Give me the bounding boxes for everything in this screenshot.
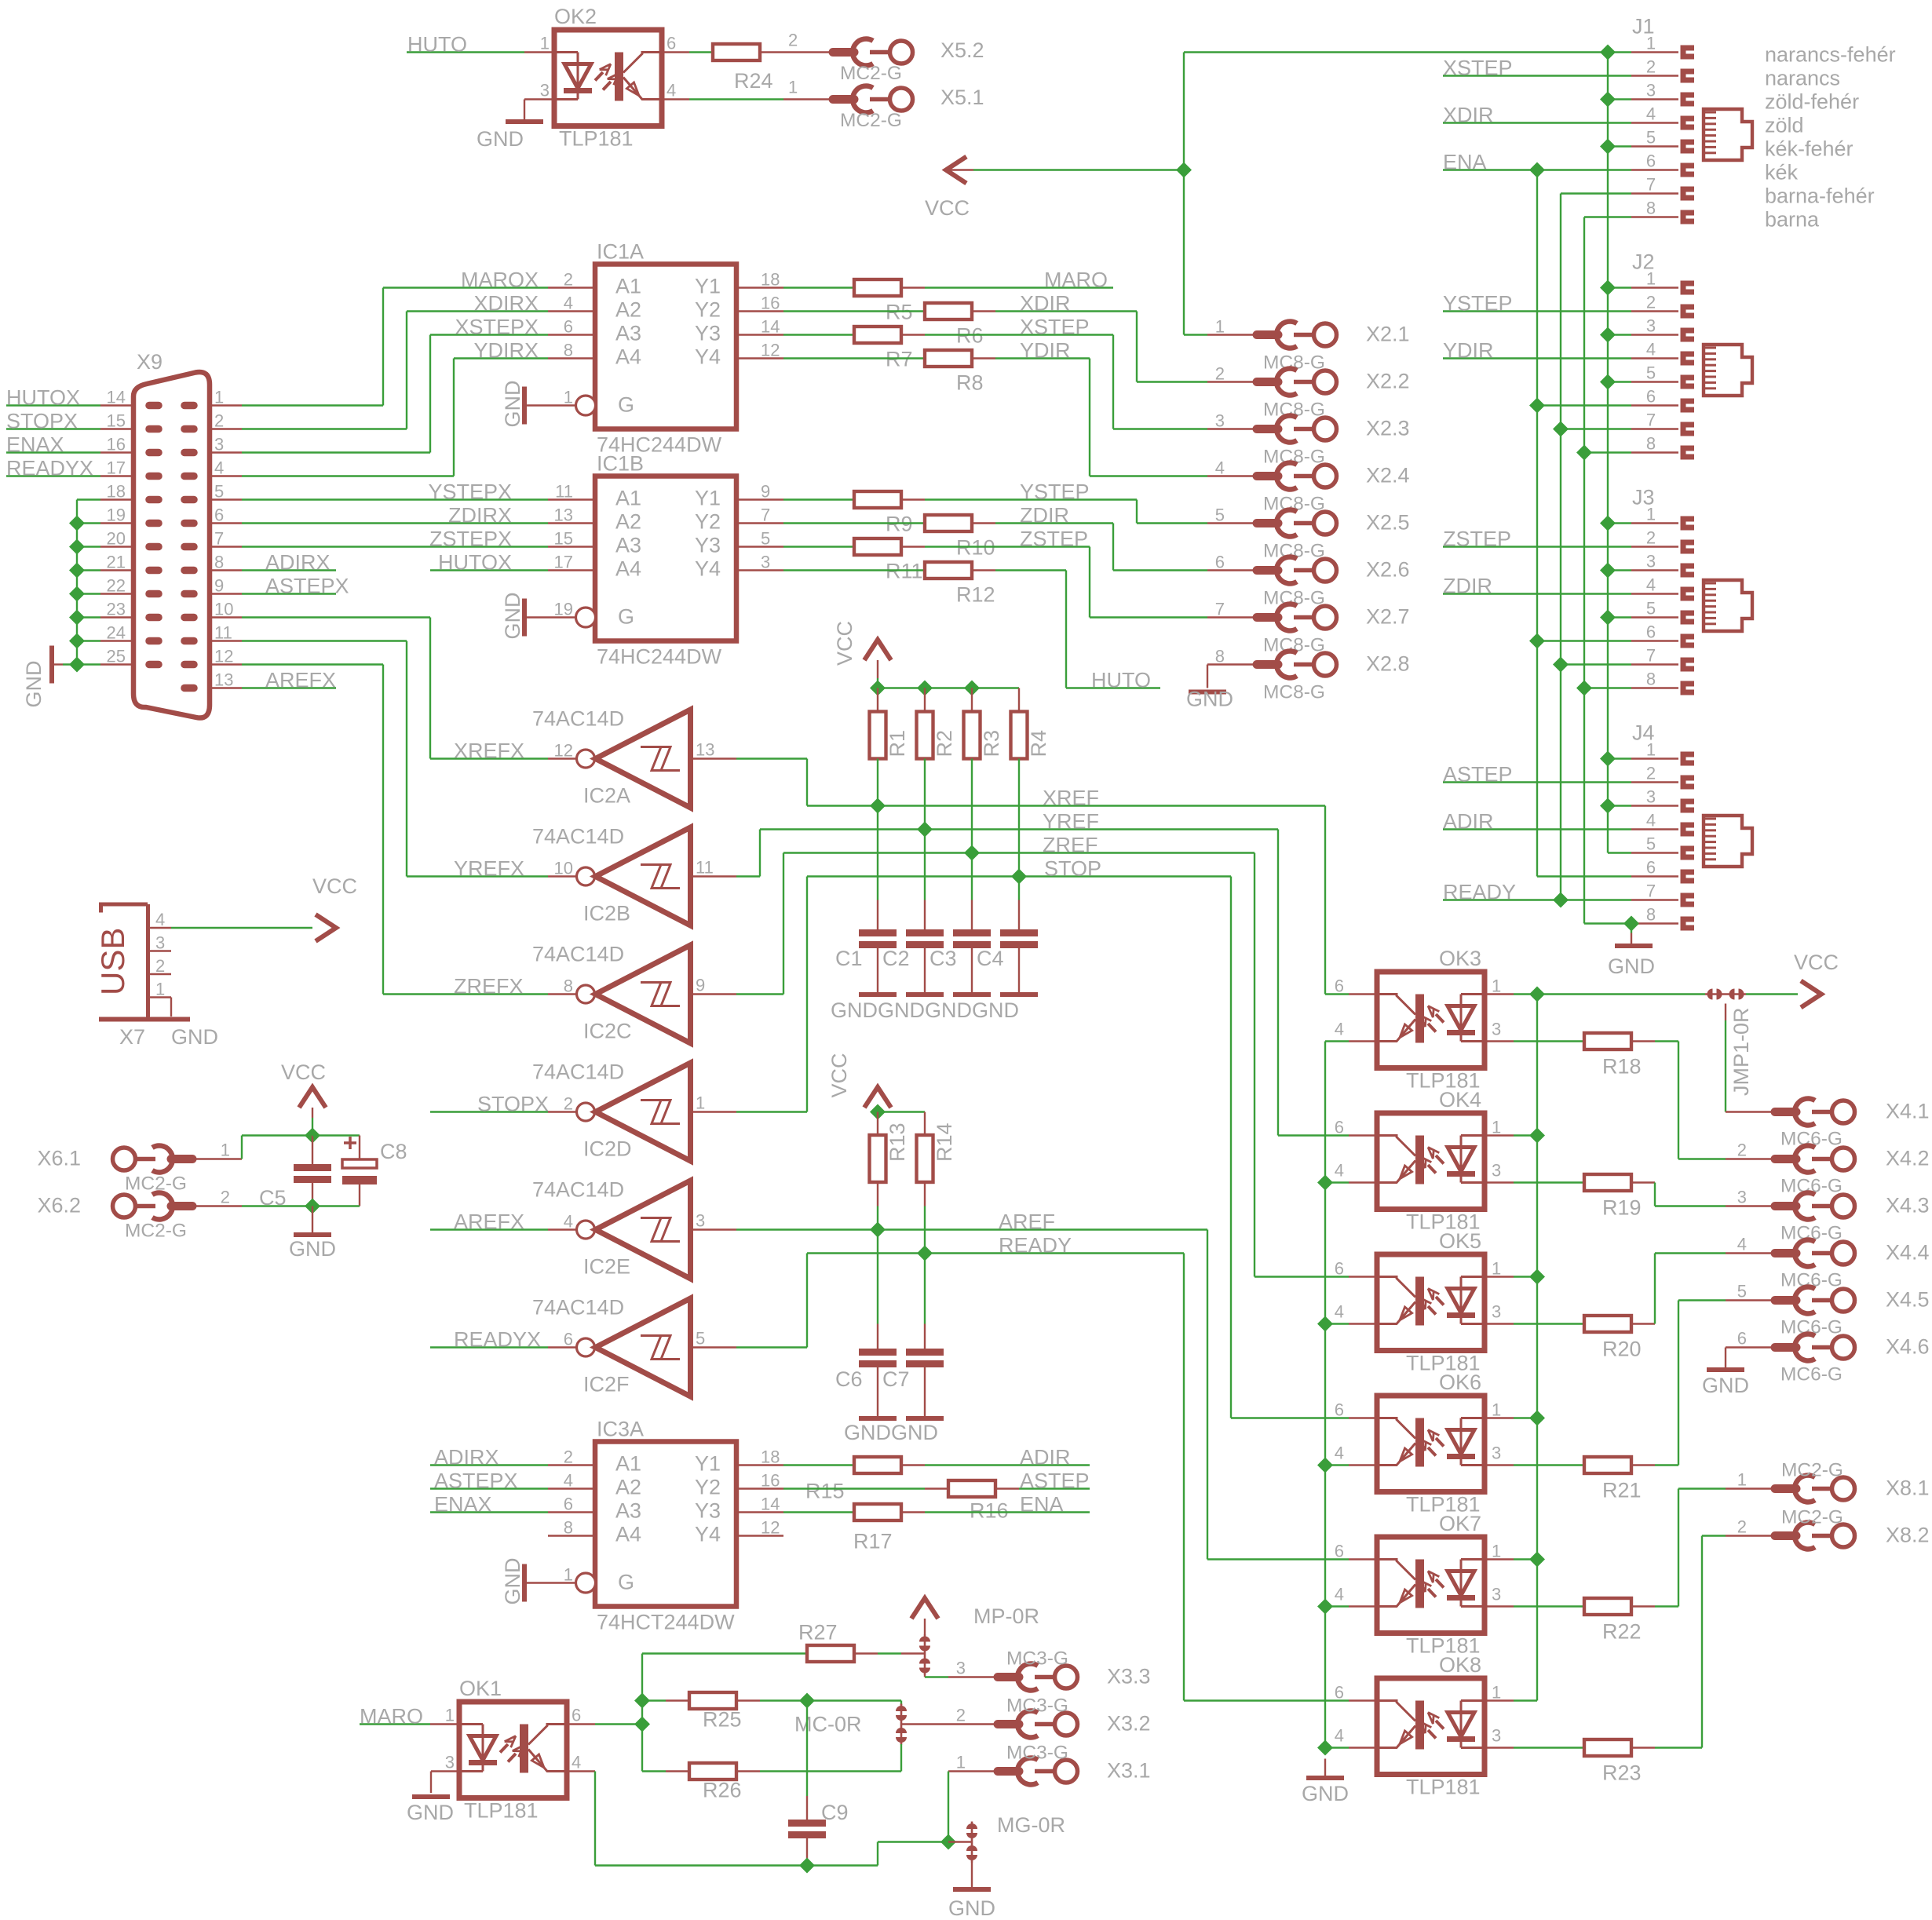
svg-text:X4.6: X4.6 bbox=[1886, 1335, 1930, 1359]
svg-text:2: 2 bbox=[214, 411, 224, 431]
svg-text:1: 1 bbox=[564, 1565, 573, 1585]
svg-text:X3.2: X3.2 bbox=[1107, 1712, 1151, 1736]
svg-text:3: 3 bbox=[214, 435, 224, 454]
svg-text:1: 1 bbox=[1646, 34, 1656, 53]
svg-text:5: 5 bbox=[214, 482, 224, 502]
svg-text:IC1A: IC1A bbox=[597, 240, 644, 264]
svg-text:READYX: READYX bbox=[454, 1328, 541, 1352]
svg-text:GND: GND bbox=[501, 593, 524, 640]
svg-text:1: 1 bbox=[1492, 1400, 1501, 1420]
svg-text:GND: GND bbox=[501, 381, 524, 428]
svg-text:OK5: OK5 bbox=[1439, 1229, 1481, 1253]
svg-text:2: 2 bbox=[1646, 764, 1656, 783]
svg-text:GND: GND bbox=[1186, 688, 1233, 711]
svg-text:4: 4 bbox=[572, 1753, 581, 1772]
svg-text:Y2: Y2 bbox=[695, 1476, 721, 1499]
svg-text:A4: A4 bbox=[615, 1523, 641, 1546]
svg-text:17: 17 bbox=[554, 553, 573, 572]
svg-text:3: 3 bbox=[155, 933, 165, 953]
svg-text:IC2B: IC2B bbox=[583, 902, 630, 925]
svg-text:R21: R21 bbox=[1602, 1479, 1642, 1502]
svg-text:6: 6 bbox=[1646, 858, 1656, 878]
svg-text:GND: GND bbox=[1702, 1374, 1749, 1397]
svg-text:11: 11 bbox=[696, 858, 714, 878]
svg-text:3: 3 bbox=[1646, 81, 1656, 100]
svg-text:2: 2 bbox=[1737, 1141, 1747, 1160]
svg-text:IC2D: IC2D bbox=[583, 1137, 632, 1161]
svg-text:G: G bbox=[618, 1571, 634, 1594]
svg-text:21: 21 bbox=[107, 553, 126, 572]
svg-text:1: 1 bbox=[1737, 1470, 1747, 1490]
svg-text:YSTEPX: YSTEPX bbox=[428, 480, 512, 504]
svg-text:74AC14D: 74AC14D bbox=[532, 825, 624, 849]
svg-text:X7: X7 bbox=[119, 1025, 145, 1049]
svg-text:HUTOX: HUTOX bbox=[438, 551, 512, 575]
svg-text:6: 6 bbox=[1335, 1542, 1344, 1561]
svg-text:8: 8 bbox=[1646, 199, 1656, 218]
svg-text:8: 8 bbox=[1646, 905, 1656, 925]
svg-text:19: 19 bbox=[107, 506, 126, 525]
svg-text:MC-0R: MC-0R bbox=[794, 1713, 862, 1736]
svg-text:R13: R13 bbox=[886, 1122, 909, 1162]
svg-text:74AC14D: 74AC14D bbox=[532, 1178, 624, 1202]
svg-text:4: 4 bbox=[214, 458, 224, 478]
svg-text:4: 4 bbox=[1646, 811, 1656, 830]
svg-text:OK1: OK1 bbox=[459, 1677, 502, 1700]
svg-text:25: 25 bbox=[107, 647, 126, 666]
svg-text:A2: A2 bbox=[615, 1476, 641, 1499]
svg-text:IC1B: IC1B bbox=[597, 452, 644, 476]
svg-text:R8: R8 bbox=[956, 371, 984, 395]
svg-text:MC8-G: MC8-G bbox=[1263, 682, 1325, 703]
svg-text:A2: A2 bbox=[615, 510, 641, 534]
svg-text:8: 8 bbox=[564, 976, 573, 996]
svg-text:ZSTEPX: ZSTEPX bbox=[429, 527, 512, 551]
svg-text:4: 4 bbox=[1646, 340, 1656, 360]
svg-text:MC2-G: MC2-G bbox=[840, 63, 902, 84]
svg-text:GND: GND bbox=[925, 998, 972, 1022]
svg-text:7: 7 bbox=[1646, 175, 1656, 195]
svg-text:VCC: VCC bbox=[827, 1053, 851, 1097]
svg-text:X4.4: X4.4 bbox=[1886, 1241, 1930, 1265]
svg-text:6: 6 bbox=[564, 317, 573, 337]
svg-text:Y1: Y1 bbox=[695, 487, 721, 510]
svg-text:X2.3: X2.3 bbox=[1366, 417, 1410, 440]
svg-text:3: 3 bbox=[1492, 1585, 1501, 1604]
svg-text:3: 3 bbox=[1492, 1444, 1501, 1463]
svg-text:13: 13 bbox=[696, 740, 714, 760]
svg-text:USB: USB bbox=[94, 928, 131, 995]
svg-text:VCC: VCC bbox=[312, 874, 357, 898]
svg-text:1: 1 bbox=[540, 34, 550, 53]
svg-text:2: 2 bbox=[155, 956, 165, 976]
svg-text:R24: R24 bbox=[734, 69, 773, 93]
svg-text:4: 4 bbox=[564, 1471, 573, 1491]
svg-text:R12: R12 bbox=[956, 583, 995, 607]
svg-text:R20: R20 bbox=[1602, 1338, 1642, 1361]
svg-text:7: 7 bbox=[1646, 411, 1656, 430]
svg-text:1: 1 bbox=[445, 1706, 455, 1725]
svg-text:1: 1 bbox=[1492, 976, 1501, 996]
svg-text:ADIRX: ADIRX bbox=[265, 551, 331, 575]
svg-text:ADIR: ADIR bbox=[1443, 810, 1494, 834]
svg-text:X8.1: X8.1 bbox=[1886, 1477, 1930, 1500]
svg-text:narancs-fehér: narancs-fehér bbox=[1765, 43, 1896, 67]
svg-text:MAROX: MAROX bbox=[461, 268, 539, 292]
svg-text:STOP: STOP bbox=[1044, 857, 1101, 881]
svg-text:7: 7 bbox=[761, 506, 770, 525]
svg-text:14: 14 bbox=[107, 388, 126, 407]
svg-text:ENAX: ENAX bbox=[6, 433, 64, 457]
svg-text:IC2A: IC2A bbox=[583, 784, 630, 808]
svg-text:R19: R19 bbox=[1602, 1196, 1642, 1220]
svg-text:X9: X9 bbox=[137, 350, 163, 374]
svg-text:15: 15 bbox=[107, 411, 126, 431]
svg-text:YDIR: YDIR bbox=[1443, 339, 1494, 363]
svg-text:zöld-fehér: zöld-fehér bbox=[1765, 90, 1859, 114]
svg-text:MG-0R: MG-0R bbox=[997, 1813, 1065, 1837]
svg-text:18: 18 bbox=[107, 482, 126, 502]
svg-text:5: 5 bbox=[1646, 128, 1656, 148]
svg-text:12: 12 bbox=[761, 1518, 780, 1538]
svg-text:1: 1 bbox=[1492, 1259, 1501, 1279]
svg-text:4: 4 bbox=[564, 294, 573, 313]
svg-text:5: 5 bbox=[1646, 834, 1656, 854]
svg-text:MC3-G: MC3-G bbox=[1006, 1648, 1068, 1670]
svg-text:4: 4 bbox=[1335, 1020, 1344, 1039]
svg-text:GND: GND bbox=[844, 1421, 891, 1444]
svg-text:1: 1 bbox=[1492, 1542, 1501, 1561]
svg-text:6: 6 bbox=[1335, 1259, 1344, 1279]
svg-text:A4: A4 bbox=[615, 557, 641, 581]
svg-text:6: 6 bbox=[1737, 1329, 1747, 1349]
svg-text:ZREF: ZREF bbox=[1043, 834, 1098, 857]
svg-text:C2: C2 bbox=[882, 947, 910, 970]
svg-text:7: 7 bbox=[1646, 646, 1656, 666]
svg-text:AREFX: AREFX bbox=[265, 669, 336, 692]
svg-text:1: 1 bbox=[221, 1141, 230, 1160]
svg-text:READYX: READYX bbox=[6, 457, 93, 480]
svg-text:ZREFX: ZREFX bbox=[454, 975, 524, 998]
svg-text:MC2-G: MC2-G bbox=[1781, 1460, 1843, 1481]
svg-text:7: 7 bbox=[214, 529, 224, 549]
svg-text:kék: kék bbox=[1765, 161, 1799, 184]
svg-text:GND: GND bbox=[878, 998, 925, 1022]
svg-text:X2.7: X2.7 bbox=[1366, 605, 1410, 629]
svg-text:MC2-G: MC2-G bbox=[1781, 1507, 1843, 1528]
svg-text:C5: C5 bbox=[259, 1186, 287, 1210]
svg-text:6: 6 bbox=[572, 1706, 581, 1725]
svg-text:19: 19 bbox=[554, 600, 573, 619]
svg-text:A3: A3 bbox=[615, 1499, 641, 1523]
svg-text:X2.6: X2.6 bbox=[1366, 558, 1410, 582]
svg-text:1: 1 bbox=[1646, 740, 1656, 760]
svg-text:3: 3 bbox=[1646, 552, 1656, 571]
svg-text:3: 3 bbox=[1737, 1188, 1747, 1207]
svg-text:ADIR: ADIR bbox=[1020, 1446, 1071, 1469]
svg-text:XREFX: XREFX bbox=[454, 739, 524, 763]
svg-text:14: 14 bbox=[761, 1495, 780, 1514]
svg-text:zöld: zöld bbox=[1765, 114, 1804, 137]
svg-text:1: 1 bbox=[1646, 269, 1656, 289]
svg-text:6: 6 bbox=[1335, 1118, 1344, 1137]
svg-text:XREF: XREF bbox=[1043, 787, 1099, 810]
svg-text:HUTO: HUTO bbox=[1091, 669, 1151, 692]
svg-text:XDIR: XDIR bbox=[1020, 292, 1071, 316]
svg-text:20: 20 bbox=[107, 529, 126, 549]
svg-text:R16: R16 bbox=[970, 1499, 1009, 1523]
svg-text:6: 6 bbox=[667, 34, 676, 53]
svg-text:A1: A1 bbox=[615, 487, 641, 510]
svg-text:R23: R23 bbox=[1602, 1761, 1642, 1785]
svg-text:C4: C4 bbox=[977, 947, 1004, 970]
svg-text:OK7: OK7 bbox=[1439, 1512, 1481, 1535]
svg-text:X4.1: X4.1 bbox=[1886, 1100, 1930, 1123]
svg-text:STOPX: STOPX bbox=[6, 410, 78, 433]
svg-text:15: 15 bbox=[554, 529, 573, 549]
svg-text:READY: READY bbox=[999, 1234, 1072, 1257]
svg-text:Y3: Y3 bbox=[695, 322, 721, 345]
svg-text:MC6-G: MC6-G bbox=[1780, 1364, 1843, 1385]
svg-text:6: 6 bbox=[1646, 151, 1656, 171]
svg-text:Y4: Y4 bbox=[695, 345, 721, 369]
svg-text:3: 3 bbox=[445, 1753, 455, 1772]
svg-text:IC2C: IC2C bbox=[583, 1020, 632, 1043]
svg-text:YSTEP: YSTEP bbox=[1020, 480, 1090, 504]
svg-text:C3: C3 bbox=[929, 947, 957, 970]
svg-text:4: 4 bbox=[1646, 575, 1656, 595]
svg-text:74AC14D: 74AC14D bbox=[532, 707, 624, 731]
svg-text:2: 2 bbox=[564, 1094, 573, 1114]
svg-text:8: 8 bbox=[1646, 670, 1656, 689]
svg-text:1: 1 bbox=[1215, 317, 1225, 337]
svg-text:MC3-G: MC3-G bbox=[1006, 1743, 1068, 1764]
svg-text:ENAX: ENAX bbox=[434, 1493, 492, 1517]
svg-text:GND: GND bbox=[289, 1237, 336, 1261]
svg-text:R3: R3 bbox=[980, 730, 1003, 757]
svg-text:2: 2 bbox=[1646, 293, 1656, 312]
svg-text:R22: R22 bbox=[1602, 1620, 1642, 1644]
svg-text:3: 3 bbox=[1492, 1302, 1501, 1322]
svg-text:X5.1: X5.1 bbox=[940, 86, 984, 109]
svg-text:GND: GND bbox=[407, 1801, 454, 1824]
svg-text:5: 5 bbox=[1646, 599, 1656, 619]
svg-text:Y1: Y1 bbox=[695, 1452, 721, 1476]
svg-text:G: G bbox=[618, 605, 634, 629]
svg-text:X2.8: X2.8 bbox=[1366, 652, 1410, 676]
svg-text:ZDIRX: ZDIRX bbox=[448, 504, 512, 527]
svg-text:Y3: Y3 bbox=[695, 1499, 721, 1523]
svg-text:8: 8 bbox=[1215, 647, 1225, 666]
svg-text:X6.2: X6.2 bbox=[37, 1194, 81, 1217]
svg-text:6: 6 bbox=[214, 506, 224, 525]
svg-text:VCC: VCC bbox=[1794, 951, 1839, 974]
svg-text:GND: GND bbox=[831, 998, 878, 1022]
svg-text:GND: GND bbox=[477, 127, 524, 151]
svg-text:A3: A3 bbox=[615, 534, 641, 557]
svg-text:YDIRX: YDIRX bbox=[473, 339, 539, 363]
svg-text:4: 4 bbox=[1335, 1585, 1344, 1604]
svg-text:A1: A1 bbox=[615, 275, 641, 298]
svg-text:17: 17 bbox=[107, 458, 126, 478]
svg-text:ZSTEP: ZSTEP bbox=[1443, 527, 1511, 551]
svg-text:narancs: narancs bbox=[1765, 67, 1840, 90]
svg-text:7: 7 bbox=[1215, 600, 1225, 619]
svg-text:18: 18 bbox=[761, 270, 780, 290]
svg-text:C8: C8 bbox=[380, 1140, 407, 1163]
svg-text:kék-fehér: kék-fehér bbox=[1765, 137, 1853, 161]
svg-text:STOPX: STOPX bbox=[477, 1093, 549, 1116]
svg-text:MC3-G: MC3-G bbox=[1006, 1696, 1068, 1717]
svg-text:6: 6 bbox=[1646, 622, 1656, 642]
svg-text:1: 1 bbox=[696, 1093, 705, 1113]
svg-text:5: 5 bbox=[1646, 363, 1656, 383]
svg-text:MP-0R: MP-0R bbox=[973, 1604, 1039, 1628]
svg-text:X6.1: X6.1 bbox=[37, 1147, 81, 1170]
svg-text:7: 7 bbox=[1646, 882, 1656, 901]
svg-text:GND: GND bbox=[972, 998, 1019, 1022]
svg-text:ZSTEP: ZSTEP bbox=[1020, 527, 1088, 551]
svg-text:X4.3: X4.3 bbox=[1886, 1194, 1930, 1217]
svg-text:8: 8 bbox=[214, 553, 224, 572]
svg-text:ZDIR: ZDIR bbox=[1020, 504, 1069, 527]
svg-text:2: 2 bbox=[1215, 364, 1225, 384]
svg-text:X2.5: X2.5 bbox=[1366, 511, 1410, 535]
svg-text:Y4: Y4 bbox=[695, 557, 721, 581]
svg-text:1: 1 bbox=[1492, 1118, 1501, 1137]
svg-text:X2.1: X2.1 bbox=[1366, 323, 1410, 346]
svg-text:9: 9 bbox=[761, 482, 770, 502]
svg-text:YREFX: YREFX bbox=[454, 857, 524, 881]
svg-text:13: 13 bbox=[214, 670, 233, 690]
svg-text:VCC: VCC bbox=[925, 196, 970, 220]
svg-text:74AC14D: 74AC14D bbox=[532, 1060, 624, 1084]
svg-text:ASTEP: ASTEP bbox=[1443, 763, 1513, 787]
svg-text:4: 4 bbox=[1335, 1302, 1344, 1322]
svg-text:ASTEP: ASTEP bbox=[1020, 1469, 1090, 1493]
svg-text:5: 5 bbox=[1737, 1282, 1747, 1301]
svg-text:16: 16 bbox=[761, 1471, 780, 1491]
svg-text:YREF: YREF bbox=[1043, 810, 1099, 834]
svg-text:YDIR: YDIR bbox=[1020, 339, 1071, 363]
svg-text:X4.5: X4.5 bbox=[1886, 1288, 1930, 1312]
svg-text:XSTEPX: XSTEPX bbox=[455, 316, 539, 339]
svg-text:74HCT244DW: 74HCT244DW bbox=[597, 1611, 735, 1634]
svg-text:3: 3 bbox=[1646, 316, 1656, 336]
svg-text:9: 9 bbox=[696, 976, 705, 995]
svg-text:YSTEP: YSTEP bbox=[1443, 292, 1513, 316]
svg-text:11: 11 bbox=[555, 482, 573, 502]
svg-text:5: 5 bbox=[696, 1329, 705, 1349]
svg-text:1: 1 bbox=[788, 78, 798, 97]
svg-text:18: 18 bbox=[761, 1447, 780, 1467]
svg-text:JMP1-0R: JMP1-0R bbox=[1729, 1007, 1753, 1096]
svg-text:GND: GND bbox=[171, 1025, 218, 1049]
svg-text:12: 12 bbox=[554, 741, 573, 761]
svg-text:3: 3 bbox=[1215, 411, 1225, 431]
svg-text:X8.2: X8.2 bbox=[1886, 1524, 1930, 1547]
svg-text:R27: R27 bbox=[798, 1621, 838, 1644]
svg-text:OK4: OK4 bbox=[1439, 1088, 1481, 1111]
svg-text:TLP181: TLP181 bbox=[1406, 1776, 1481, 1799]
svg-text:4: 4 bbox=[1335, 1161, 1344, 1181]
svg-text:1: 1 bbox=[564, 388, 573, 407]
svg-text:3: 3 bbox=[956, 1659, 966, 1678]
svg-text:6: 6 bbox=[1335, 1400, 1344, 1420]
svg-text:2: 2 bbox=[788, 31, 798, 50]
svg-text:3: 3 bbox=[696, 1211, 705, 1231]
svg-text:1: 1 bbox=[1492, 1683, 1501, 1703]
svg-text:R25: R25 bbox=[703, 1708, 742, 1732]
svg-text:XDIR: XDIR bbox=[1443, 104, 1494, 127]
svg-text:2: 2 bbox=[1646, 528, 1656, 548]
svg-text:8: 8 bbox=[564, 341, 573, 360]
svg-text:Y3: Y3 bbox=[695, 534, 721, 557]
svg-text:10: 10 bbox=[554, 859, 573, 878]
svg-text:C1: C1 bbox=[835, 947, 863, 970]
svg-text:A2: A2 bbox=[615, 298, 641, 322]
svg-text:R15: R15 bbox=[805, 1480, 845, 1503]
svg-text:MC2-G: MC2-G bbox=[840, 110, 902, 131]
svg-text:X3.1: X3.1 bbox=[1107, 1759, 1151, 1783]
svg-text:GND: GND bbox=[22, 661, 46, 708]
svg-text:ZDIR: ZDIR bbox=[1443, 575, 1492, 598]
svg-text:GND: GND bbox=[948, 1896, 995, 1920]
svg-text:1: 1 bbox=[155, 980, 165, 999]
svg-text:23: 23 bbox=[107, 600, 126, 619]
svg-text:1: 1 bbox=[1646, 505, 1656, 524]
svg-text:2: 2 bbox=[221, 1188, 230, 1207]
svg-text:AREFX: AREFX bbox=[454, 1210, 524, 1234]
svg-text:Y2: Y2 bbox=[695, 298, 721, 322]
svg-text:13: 13 bbox=[554, 506, 573, 525]
svg-text:C6: C6 bbox=[835, 1367, 863, 1391]
svg-text:3: 3 bbox=[1492, 1020, 1501, 1039]
svg-text:6: 6 bbox=[564, 1330, 573, 1349]
svg-text:X2.2: X2.2 bbox=[1366, 370, 1410, 393]
svg-text:VCC: VCC bbox=[281, 1060, 326, 1084]
svg-text:OK2: OK2 bbox=[554, 5, 597, 28]
svg-text:TLP181: TLP181 bbox=[559, 127, 634, 151]
svg-text:6: 6 bbox=[1646, 387, 1656, 407]
svg-text:barna-fehér: barna-fehér bbox=[1765, 184, 1875, 208]
svg-text:IC3A: IC3A bbox=[597, 1418, 644, 1441]
svg-text:TLP181: TLP181 bbox=[464, 1799, 539, 1823]
svg-text:Y4: Y4 bbox=[695, 1523, 721, 1546]
svg-text:2: 2 bbox=[1737, 1517, 1747, 1537]
svg-text:MC2-G: MC2-G bbox=[125, 1221, 187, 1242]
svg-text:ASTEPX: ASTEPX bbox=[265, 575, 349, 598]
svg-text:4: 4 bbox=[1335, 1444, 1344, 1463]
svg-text:4: 4 bbox=[155, 910, 165, 929]
svg-text:R1: R1 bbox=[886, 730, 909, 757]
svg-text:4: 4 bbox=[564, 1212, 573, 1232]
svg-text:IC2F: IC2F bbox=[583, 1373, 630, 1396]
svg-text:R18: R18 bbox=[1602, 1055, 1642, 1079]
svg-text:XSTEP: XSTEP bbox=[1020, 316, 1090, 339]
svg-text:6: 6 bbox=[564, 1495, 573, 1514]
svg-text:4: 4 bbox=[667, 81, 676, 100]
svg-text:MARO: MARO bbox=[360, 1705, 423, 1728]
svg-text:GND: GND bbox=[1302, 1782, 1349, 1805]
svg-text:OK8: OK8 bbox=[1439, 1653, 1481, 1677]
svg-text:barna: barna bbox=[1765, 208, 1820, 232]
svg-text:14: 14 bbox=[761, 317, 780, 337]
svg-text:3: 3 bbox=[1492, 1161, 1501, 1181]
svg-text:6: 6 bbox=[1215, 553, 1225, 572]
svg-text:X4.2: X4.2 bbox=[1886, 1147, 1930, 1170]
svg-text:4: 4 bbox=[1646, 104, 1656, 124]
